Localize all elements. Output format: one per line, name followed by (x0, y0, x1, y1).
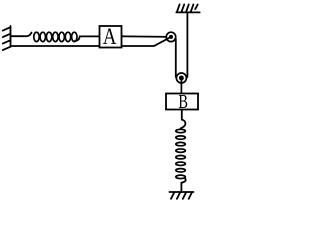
svg-text:A: A (103, 24, 117, 49)
svg-text:B: B (178, 92, 188, 113)
